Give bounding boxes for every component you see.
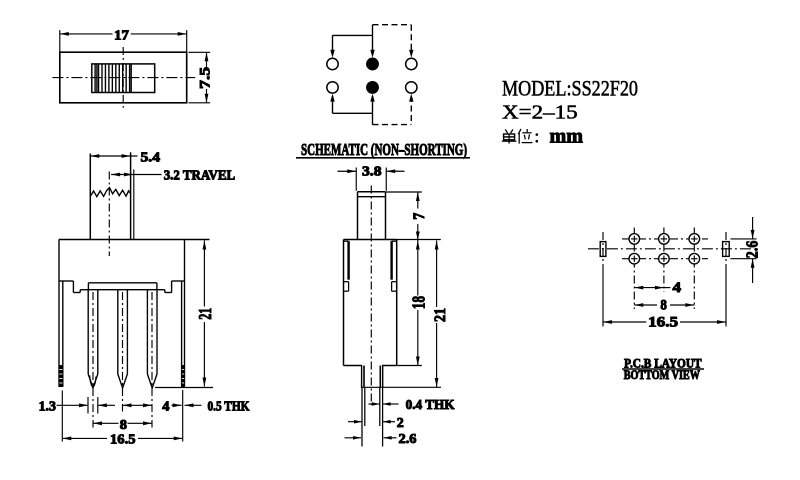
svg-text:4: 4 bbox=[162, 399, 169, 414]
svg-text:0.5 THK: 0.5 THK bbox=[208, 399, 250, 414]
svg-text:mm: mm bbox=[550, 124, 584, 148]
svg-text:17: 17 bbox=[114, 27, 129, 42]
svg-text:BOTTOM VIEW: BOTTOM VIEW bbox=[624, 368, 701, 382]
svg-text:2.6: 2.6 bbox=[399, 431, 417, 446]
svg-text:2: 2 bbox=[397, 415, 404, 430]
svg-text:16.5: 16.5 bbox=[648, 315, 678, 331]
svg-text:7.5: 7.5 bbox=[197, 67, 213, 89]
svg-text:8: 8 bbox=[120, 417, 127, 432]
svg-text:3.2 TRAVEL: 3.2 TRAVEL bbox=[164, 168, 236, 183]
svg-text:2.6: 2.6 bbox=[743, 241, 762, 259]
svg-text:16.5: 16.5 bbox=[110, 433, 136, 448]
svg-text:1.3: 1.3 bbox=[39, 399, 57, 414]
svg-text:8: 8 bbox=[660, 298, 667, 314]
svg-text:4: 4 bbox=[673, 280, 682, 296]
svg-text:SCHEMATIC (NON–SHORTING): SCHEMATIC (NON–SHORTING) bbox=[301, 140, 467, 159]
svg-text:5.4: 5.4 bbox=[141, 150, 161, 165]
svg-text:MODEL:SS22F20: MODEL:SS22F20 bbox=[502, 76, 638, 101]
svg-text:21: 21 bbox=[195, 308, 215, 320]
svg-text:X=2–15: X=2–15 bbox=[502, 102, 578, 123]
svg-text:21: 21 bbox=[432, 308, 449, 322]
svg-text:18: 18 bbox=[408, 296, 428, 309]
svg-text:0.4 THK: 0.4 THK bbox=[406, 397, 455, 412]
svg-text:3.8: 3.8 bbox=[362, 164, 382, 179]
svg-text:7: 7 bbox=[411, 213, 428, 220]
